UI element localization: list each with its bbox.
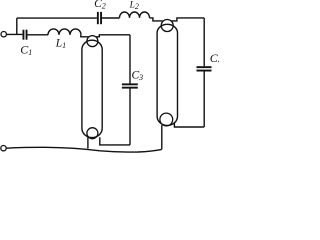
capacitor C3 — [122, 83, 138, 88]
svg-text:L1: L1 — [55, 37, 66, 50]
svg-text:C3: C3 — [132, 69, 144, 82]
wire: C3 top lead — [129, 35, 131, 84]
wire: C4 top lead — [203, 18, 205, 66]
resonator 2 bottom ball — [160, 113, 173, 126]
bottom terminal (lower-left) — [1, 146, 6, 151]
wire: resonator 2 bottom-right step to C4 bottom — [174, 122, 204, 127]
capacitor C2 — [97, 12, 102, 24]
ground rail (bottom wire) — [6, 147, 162, 152]
wire: C1 to L1 — [28, 34, 49, 36]
capacitor C1 — [23, 30, 28, 40]
wire: branch vertical up to top rail — [16, 18, 18, 34]
wire: C4 bottom lead down — [203, 72, 205, 128]
inductor L1 — [48, 29, 81, 35]
wire: L1 to resonator 1 top-left (step) — [81, 35, 89, 37]
wire: C2 to L2 — [102, 17, 120, 19]
wire: resonator 1 top-right step to C3 top corner — [96, 35, 131, 37]
svg-text:C1: C1 — [20, 42, 32, 57]
capacitor C4 — [197, 66, 212, 71]
svg-text:L2: L2 — [129, 0, 139, 11]
resonator 2 top ball — [161, 20, 173, 32]
wire: C3 bottom lead down — [129, 89, 131, 145]
wire: input terminal to C1 — [6, 33, 22, 35]
resonator 1 top ball — [87, 36, 98, 47]
inductor L2 — [120, 12, 150, 18]
resonator 2 body (stadium) — [157, 24, 177, 125]
input terminal (top-left) — [1, 32, 6, 37]
wire: L2 to resonator 2 top-left (step) — [150, 18, 163, 21]
wire: resonator 1 bottom ball to ground rail — [87, 137, 89, 149]
wire: resonator 1 bottom-right to C3 bottom (step box) — [100, 137, 130, 145]
wire: top rail from branch to C2 — [17, 17, 97, 19]
wire: resonator 2 bottom ball to ground rail end — [161, 125, 163, 149]
svg-text:C4: C4 — [210, 51, 219, 66]
svg-text:C2: C2 — [94, 0, 106, 10]
resonator 1 bottom ball — [87, 128, 98, 139]
wire: resonator 2 top-right step to C4 top corner — [171, 18, 204, 21]
resonator 1 body (stadium) — [82, 40, 102, 137]
